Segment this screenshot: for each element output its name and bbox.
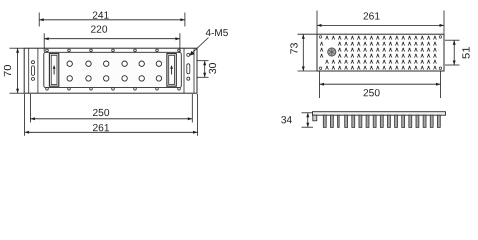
dimension 261 (front)	[25, 94, 198, 136]
left flange top hole	[32, 61, 35, 64]
dimension 30	[197, 61, 219, 78]
svg-text:261: 261	[363, 11, 380, 22]
svg-text:51: 51	[461, 46, 472, 59]
left handle arrow	[53, 65, 56, 75]
label 4-M5 with leader	[189, 28, 228, 56]
knob (hatched circle)	[328, 48, 336, 56]
big vent holes row 2	[67, 76, 162, 81]
dimension 220	[44, 25, 180, 52]
top view body	[317, 34, 444, 71]
right flange slot	[187, 64, 190, 74]
dimension 73	[289, 34, 316, 71]
svg-text:250: 250	[92, 108, 109, 119]
right handle arrow	[170, 65, 173, 75]
svg-text:220: 220	[90, 25, 107, 36]
corner screw top-left	[319, 36, 321, 38]
left flange bottom hole	[32, 77, 35, 80]
pin fin marks grid	[320, 36, 436, 70]
dimension 34	[281, 113, 313, 127]
right handle	[167, 54, 176, 87]
svg-text:250: 250	[363, 88, 380, 99]
bottom edge screw holes	[46, 88, 181, 91]
svg-text:4-M5: 4-M5	[205, 28, 228, 39]
right flange bottom hole	[187, 77, 190, 80]
heatsink teeth	[323, 115, 440, 127]
top edge screw holes	[46, 49, 181, 52]
svg-text:261: 261	[92, 123, 109, 134]
inner panel	[44, 52, 182, 87]
right fold line A	[183, 48, 185, 93]
left handle	[49, 54, 58, 87]
svg-text:70: 70	[3, 64, 14, 77]
dimension 261 (top view)	[317, 11, 444, 34]
dimension 70	[3, 48, 24, 93]
dimension 51	[445, 40, 472, 65]
base plate bar	[313, 112, 446, 116]
corner screw bottom-right	[439, 67, 441, 69]
right fold line B	[193, 48, 195, 93]
dimension 241	[39, 11, 185, 27]
left end block	[313, 115, 317, 121]
corner screw bottom-left	[319, 67, 321, 69]
left fold line B	[37, 48, 39, 93]
dimension 250 (front)	[30, 94, 192, 123]
left fold line A	[28, 48, 30, 93]
left flange slot	[32, 66, 35, 76]
right flange top hole (4-M5)	[187, 53, 190, 56]
svg-text:241: 241	[92, 11, 109, 22]
corner screw top-right	[439, 36, 441, 38]
svg-text:34: 34	[281, 115, 293, 126]
svg-text:73: 73	[289, 42, 300, 54]
front plate outline	[24, 48, 197, 93]
svg-text:30: 30	[208, 62, 219, 74]
dimension 250 (top view)	[320, 71, 441, 99]
big vent holes row 1	[67, 61, 162, 66]
